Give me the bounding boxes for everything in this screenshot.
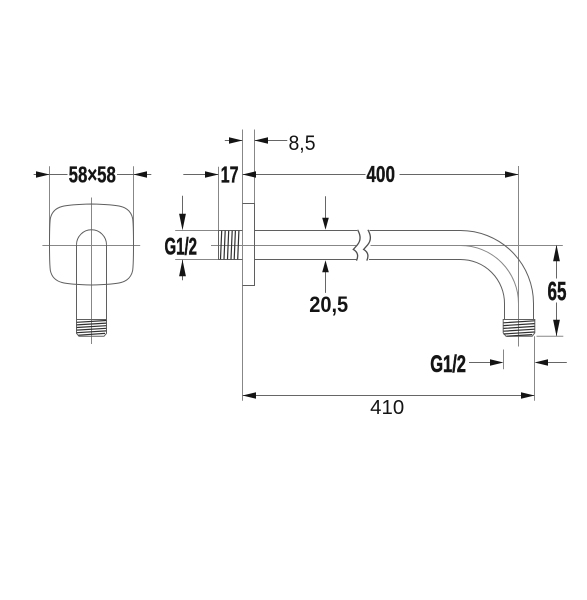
svg-text:410: 410 [370, 397, 404, 419]
svg-text:20,5: 20,5 [309, 292, 348, 317]
svg-text:8,5: 8,5 [289, 131, 316, 155]
svg-text:58×58: 58×58 [69, 162, 116, 188]
svg-text:17: 17 [221, 162, 239, 188]
svg-text:400: 400 [366, 161, 395, 187]
svg-text:G1/2: G1/2 [430, 351, 466, 378]
svg-text:65: 65 [548, 276, 567, 306]
svg-text:G1/2: G1/2 [165, 233, 198, 260]
